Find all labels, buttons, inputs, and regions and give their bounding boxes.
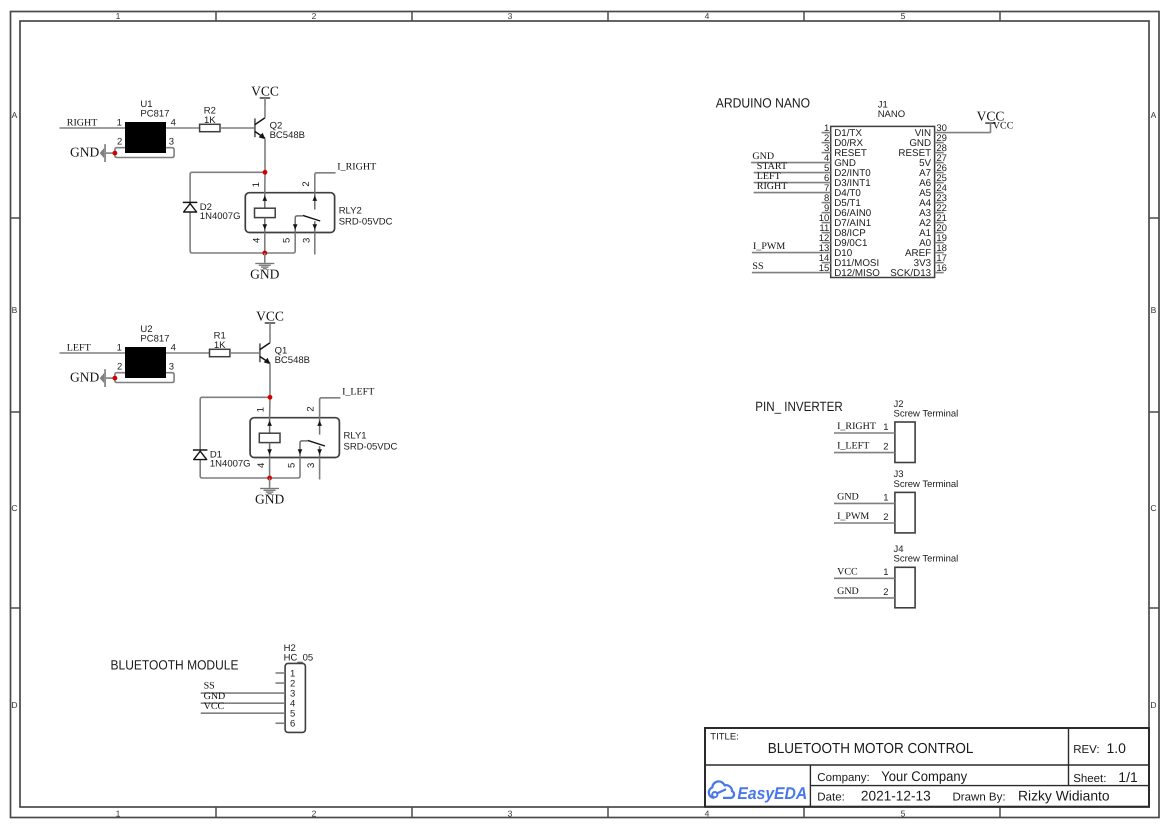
svg-text:GND: GND (70, 370, 99, 385)
svg-text:LEFT: LEFT (67, 342, 91, 353)
svg-text:BLUETOOTH MOTOR CONTROL: BLUETOOTH MOTOR CONTROL (768, 741, 974, 757)
svg-text:1: 1 (116, 808, 121, 818)
svg-text:ARDUINO NANO: ARDUINO NANO (716, 96, 810, 111)
svg-text:2: 2 (883, 442, 888, 453)
svg-text:VCC: VCC (837, 566, 858, 577)
svg-text:4: 4 (705, 808, 710, 818)
svg-text:4: 4 (256, 463, 267, 468)
svg-text:2: 2 (117, 136, 122, 147)
svg-text:I_RIGHT: I_RIGHT (337, 162, 376, 173)
svg-text:SCK/D13: SCK/D13 (890, 268, 931, 279)
svg-text:RLY1: RLY1 (344, 430, 367, 441)
svg-text:Screw Terminal: Screw Terminal (894, 408, 959, 419)
svg-text:REV:: REV: (1073, 744, 1099, 756)
svg-text:15: 15 (819, 263, 830, 274)
svg-text:3: 3 (301, 238, 312, 243)
svg-text:4: 4 (171, 117, 176, 128)
svg-text:SRD-05VDC: SRD-05VDC (339, 216, 393, 227)
svg-text:16: 16 (936, 263, 947, 274)
svg-text:5: 5 (901, 808, 906, 818)
svg-text:5: 5 (901, 11, 906, 21)
svg-text:2: 2 (117, 361, 122, 372)
svg-text:VCC: VCC (251, 83, 279, 98)
svg-text:Date:: Date: (817, 792, 845, 804)
svg-text:HC_05: HC_05 (284, 653, 314, 664)
svg-text:4: 4 (251, 238, 262, 243)
svg-text:EasyEDA: EasyEDA (737, 784, 807, 803)
svg-text:D: D (1150, 700, 1156, 710)
svg-text:SRD-05VDC: SRD-05VDC (344, 441, 398, 452)
svg-text:C: C (1150, 503, 1156, 513)
svg-text:5: 5 (282, 238, 293, 243)
svg-text:VCC: VCC (204, 701, 225, 712)
svg-text:GND: GND (255, 492, 284, 507)
svg-text:Company:: Company: (817, 772, 869, 784)
svg-text:4: 4 (171, 342, 176, 353)
svg-text:1N4007G: 1N4007G (210, 459, 251, 470)
svg-text:D: D (11, 700, 17, 710)
svg-text:PIN_ INVERTER: PIN_ INVERTER (755, 399, 843, 414)
svg-text:4: 4 (705, 11, 710, 21)
svg-text:A: A (12, 110, 18, 120)
svg-text:2: 2 (312, 11, 317, 21)
svg-text:C: C (11, 503, 17, 513)
svg-text:Your Company: Your Company (881, 768, 967, 784)
svg-text:1: 1 (117, 117, 122, 128)
svg-text:RIGHT: RIGHT (757, 181, 788, 192)
svg-text:GND: GND (70, 145, 99, 160)
svg-text:I_RIGHT: I_RIGHT (837, 421, 876, 432)
svg-text:2: 2 (883, 587, 888, 598)
svg-text:1K: 1K (214, 340, 226, 351)
svg-text:1: 1 (883, 492, 888, 503)
svg-text:1N4007G: 1N4007G (200, 211, 241, 222)
svg-text:BLUETOOTH MODULE: BLUETOOTH MODULE (111, 657, 239, 672)
svg-text:RLY2: RLY2 (339, 205, 362, 216)
svg-text:Screw Terminal: Screw Terminal (894, 554, 959, 565)
svg-text:1: 1 (883, 422, 888, 433)
svg-text:3: 3 (306, 463, 317, 468)
svg-text:1.0: 1.0 (1107, 740, 1127, 756)
svg-text:VCC: VCC (256, 308, 284, 323)
svg-text:BC548B: BC548B (275, 355, 310, 366)
svg-text:BC548B: BC548B (270, 130, 305, 141)
svg-text:GND: GND (837, 492, 859, 503)
svg-text:1: 1 (251, 182, 262, 187)
svg-text:3: 3 (169, 361, 174, 372)
svg-text:A: A (1151, 110, 1157, 120)
svg-text:Screw Terminal: Screw Terminal (894, 479, 959, 490)
svg-text:1: 1 (883, 567, 888, 578)
svg-text:I_LEFT: I_LEFT (837, 441, 869, 452)
svg-text:6: 6 (290, 719, 295, 730)
svg-text:3: 3 (169, 136, 174, 147)
svg-text:2021-12-13: 2021-12-13 (861, 788, 931, 804)
svg-text:2: 2 (306, 406, 317, 411)
svg-text:RIGHT: RIGHT (67, 117, 98, 128)
svg-text:I_PWM: I_PWM (837, 511, 869, 522)
svg-text:PC817: PC817 (140, 334, 169, 345)
svg-text:TITLE:: TITLE: (710, 731, 739, 742)
svg-text:5: 5 (287, 463, 298, 468)
svg-text:D12/MISO: D12/MISO (834, 268, 880, 279)
svg-text:B: B (1151, 305, 1157, 315)
svg-text:1K: 1K (204, 115, 216, 126)
svg-text:I_LEFT: I_LEFT (342, 387, 374, 398)
svg-text:GND: GND (250, 267, 279, 282)
svg-text:VCC: VCC (993, 121, 1014, 132)
svg-text:SS: SS (752, 261, 763, 272)
svg-text:2: 2 (301, 181, 312, 186)
svg-text:1: 1 (256, 407, 267, 412)
svg-text:Rizky Widianto: Rizky Widianto (1018, 788, 1110, 804)
svg-text:1/1: 1/1 (1118, 769, 1138, 785)
svg-text:2: 2 (883, 512, 888, 523)
svg-text:PC817: PC817 (140, 109, 169, 120)
svg-text:Drawn By:: Drawn By: (953, 792, 1006, 804)
svg-text:B: B (12, 305, 18, 315)
svg-text:3: 3 (508, 11, 513, 21)
svg-text:1: 1 (117, 342, 122, 353)
svg-text:GND: GND (837, 586, 859, 597)
svg-text:2: 2 (312, 808, 317, 818)
svg-text:1: 1 (116, 11, 121, 21)
svg-text:NANO: NANO (878, 109, 905, 120)
svg-text:I_PWM: I_PWM (753, 241, 785, 252)
svg-text:3: 3 (508, 808, 513, 818)
svg-text:Sheet:: Sheet: (1073, 773, 1106, 785)
